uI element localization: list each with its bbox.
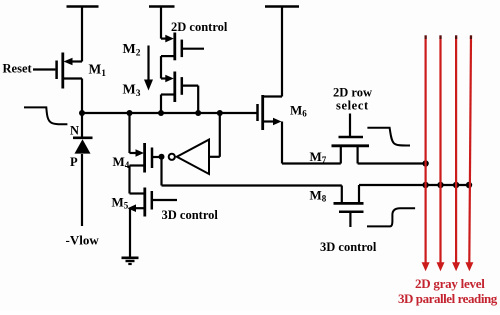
wire M3 source to bus [160, 95, 162, 114]
node (M7 source on read line 1) [422, 160, 428, 166]
wire M4 source to M5 drain [128, 166, 130, 194]
svg-text:2D control: 2D control [171, 20, 228, 34]
node dot (inverter input tap) [217, 110, 223, 116]
wire M3 gate to bus [197, 86, 199, 113]
svg-text:3D control: 3D control [320, 240, 377, 254]
transistor M2 [161, 33, 204, 61]
wire inverter output to M8 [162, 157, 342, 204]
svg-text:P: P [70, 155, 78, 169]
svg-text:N: N [70, 124, 79, 138]
node N dot [79, 110, 85, 116]
transistor M7 [282, 114, 426, 164]
wire VDD3 to M6 drain [281, 7, 283, 97]
wire VDD2 to M2 drain [160, 7, 162, 39]
red read line 4 [465, 35, 473, 271]
transistor M1 [57, 53, 82, 89]
wire bus to M4 drain [128, 113, 130, 153]
waveform at node N [24, 107, 67, 124]
wire M6 source down [281, 122, 283, 164]
svg-text:3D control: 3D control [162, 208, 219, 222]
waveform at M7 gate [367, 128, 410, 146]
photodiode D1 [73, 113, 93, 226]
svg-text:select: select [336, 99, 369, 113]
transistor M8 [334, 185, 470, 227]
node dots (M8 source on read lines) [422, 182, 428, 188]
transistor M3 [161, 72, 198, 103]
svg-text:-Vlow: -Vlow [66, 233, 100, 248]
wire M2 source to M3 drain [160, 56, 162, 78]
node dot (M4 drain tap) [127, 110, 133, 116]
op-amp U1 (inverter) [159, 113, 220, 174]
wire M1 source to node N [81, 79, 83, 114]
svg-text:3D parallel reading: 3D parallel reading [398, 291, 498, 306]
node dot (M3 gate tap) [195, 110, 201, 116]
red read line 2 [437, 35, 445, 271]
node dot (M3 source tap) [158, 110, 164, 116]
power rail VDD3 (above M6) [265, 5, 299, 8]
wire VDD1 to M1 drain [81, 7, 83, 62]
svg-text:Reset: Reset [3, 62, 33, 76]
wire M5 source to ground [129, 208, 131, 257]
power rail VDD2 (above M2) [149, 5, 175, 8]
transistor M6 [258, 95, 283, 130]
waveform at M8 gate [367, 208, 415, 226]
svg-text:2D gray level: 2D gray level [415, 276, 485, 291]
arrow (down) between M2 and M3 [144, 46, 153, 91]
svg-text:2D row: 2D row [333, 86, 372, 100]
transistor M4 [130, 143, 162, 173]
red read line 3 [452, 35, 460, 271]
red read line 1 [422, 35, 430, 271]
transistor M5 [128, 188, 178, 217]
power rail VDD1 (above M1) [67, 5, 99, 8]
ground [122, 258, 139, 264]
bus wire (node N horizontal) [82, 112, 258, 114]
wire Reset to M1 gate [33, 68, 55, 70]
